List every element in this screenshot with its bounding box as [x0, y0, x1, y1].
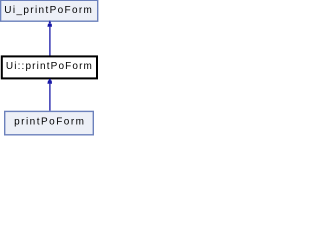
inheritance arrow middle to top: [47, 21, 52, 56]
svg-text:Ui_printPoForm: Ui_printPoForm: [4, 5, 92, 16]
inheritance arrow bottom to middle: [47, 79, 52, 111]
node box Ui_printPoForm: [1, 0, 98, 21]
node box Ui::printPoForm (current): [2, 56, 97, 78]
node box printPoForm: [5, 111, 94, 134]
svg-text:Ui::printPoForm: Ui::printPoForm: [6, 61, 92, 72]
